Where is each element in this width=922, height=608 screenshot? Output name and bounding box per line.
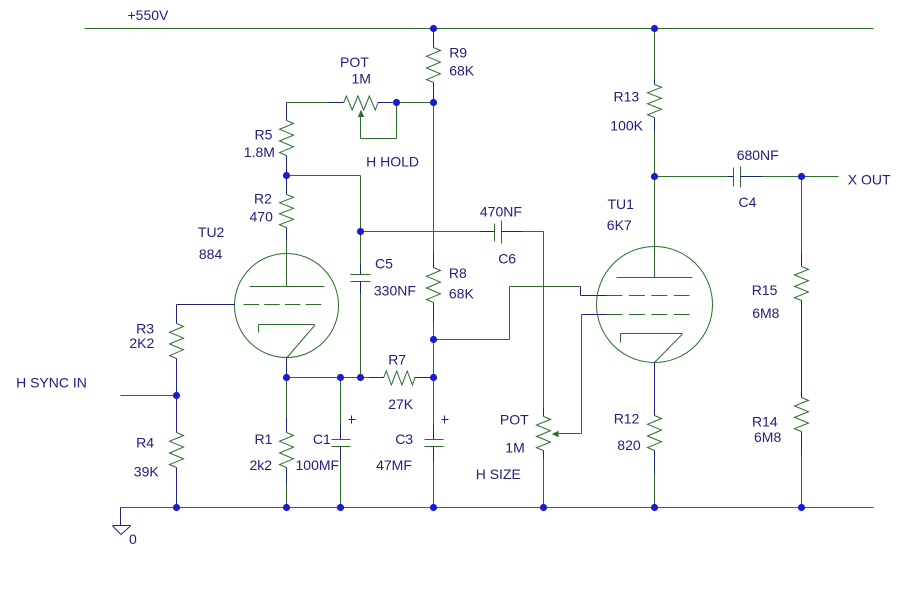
svg-text:680NF: 680NF xyxy=(737,147,779,163)
wire R9 to node xyxy=(433,83,435,103)
label H SYNC IN xyxy=(16,375,87,391)
svg-text:+550V: +550V xyxy=(128,7,170,23)
svg-text:6M8: 6M8 xyxy=(752,305,779,321)
wire POT H SIZE to ground xyxy=(543,451,545,508)
wire node339 to TU1 grid1 xyxy=(434,287,607,340)
wire node101 down to R8 xyxy=(433,103,435,268)
capacitor C4 680NF xyxy=(734,147,779,210)
wire top rail to R13 xyxy=(654,29,656,85)
wire R7 to node433 xyxy=(415,377,434,379)
resistor R2 xyxy=(250,191,294,228)
svg-text:100K: 100K xyxy=(610,118,643,134)
resistor R3 xyxy=(129,321,183,359)
svg-text:TU2: TU2 xyxy=(198,224,225,240)
svg-text:39K: 39K xyxy=(134,464,160,480)
wire C5 to cathode row xyxy=(360,282,362,378)
potentiometer POT 1M H HOLD xyxy=(340,54,378,110)
svg-text:6K7: 6K7 xyxy=(607,217,632,233)
wire node231 to C6 xyxy=(361,231,495,233)
svg-text:68K: 68K xyxy=(449,63,475,79)
capacitor C1 100MF xyxy=(296,416,356,473)
node C1 top xyxy=(337,374,344,381)
svg-text:2K2: 2K2 xyxy=(129,335,154,351)
node C5 top xyxy=(357,228,364,235)
svg-text:R15: R15 xyxy=(752,282,778,298)
svg-text:C6: C6 xyxy=(498,251,516,267)
node ground R14 xyxy=(798,504,805,511)
node R7 right xyxy=(430,374,437,381)
node X OUT xyxy=(798,173,805,180)
node top-rail R13 xyxy=(651,25,658,32)
wire C6 to H SIZE pot column xyxy=(502,232,544,409)
node pot wiper xyxy=(393,99,400,106)
svg-text:1.8M: 1.8M xyxy=(244,144,275,160)
wire C1 to ground xyxy=(340,447,342,508)
svg-text:2k2: 2k2 xyxy=(250,457,273,473)
svg-text:0: 0 xyxy=(129,531,137,547)
svg-text:R2: R2 xyxy=(254,191,272,207)
wire R2 to TU2 anode xyxy=(286,228,288,254)
svg-text:TU1: TU1 xyxy=(608,196,635,212)
node C4 left xyxy=(651,173,658,180)
wire TU1 grid2 stub xyxy=(582,314,607,316)
svg-text:470NF: 470NF xyxy=(480,204,522,220)
wire H SYNC IN stub xyxy=(121,395,177,397)
resistor R12 xyxy=(614,411,662,454)
resistor R8 xyxy=(427,265,475,303)
wire node339 to node377 xyxy=(433,340,435,378)
resistor R9 xyxy=(427,45,475,83)
wire R13 to node176 xyxy=(654,118,656,177)
resistor R7 xyxy=(384,352,416,413)
node ground C1 xyxy=(337,504,344,511)
svg-text:330NF: 330NF xyxy=(374,283,416,299)
node ground R12 xyxy=(651,504,658,511)
svg-text:47MF: 47MF xyxy=(376,457,412,473)
resistor R4 xyxy=(134,433,184,480)
wire node176 to TU1 anode xyxy=(654,177,656,247)
svg-text:C3: C3 xyxy=(395,431,413,447)
svg-text:R8: R8 xyxy=(449,265,467,281)
svg-text:H SYNC IN: H SYNC IN xyxy=(16,375,87,391)
wire R4 to ground xyxy=(176,468,178,508)
wire POT right to node xyxy=(378,102,434,104)
svg-text:R14: R14 xyxy=(752,414,778,430)
svg-text:R9: R9 xyxy=(449,45,467,61)
wire R8 to node339 xyxy=(433,303,435,340)
POT H SIZE wiper arrow xyxy=(552,431,582,438)
svg-text:884: 884 xyxy=(199,246,223,262)
svg-text:100MF: 100MF xyxy=(296,457,340,473)
node ground R4 xyxy=(173,504,180,511)
potentiometer POT 1M H SIZE xyxy=(476,409,551,483)
wire POT left corner down xyxy=(286,103,288,121)
svg-text:R1: R1 xyxy=(255,431,273,447)
svg-text:POT: POT xyxy=(500,412,529,428)
wire cathode row xyxy=(287,377,384,379)
node ground H SIZE pot xyxy=(540,504,547,511)
label X OUT xyxy=(848,172,891,188)
label +550V xyxy=(128,7,170,23)
wire TU1 cathode to R12 xyxy=(654,363,656,416)
wire C3 to ground xyxy=(433,447,435,508)
svg-text:R12: R12 xyxy=(614,411,640,427)
node ground R1 xyxy=(283,504,290,511)
svg-text:H HOLD: H HOLD xyxy=(366,154,419,170)
wire node377 to R1 xyxy=(286,378,288,433)
svg-text:H SIZE: H SIZE xyxy=(476,466,521,482)
wire R5 top to POT xyxy=(287,102,344,104)
capacitor C3 xyxy=(376,416,448,473)
node R5 bottom xyxy=(283,172,290,179)
wire node801 to R15 xyxy=(801,177,803,267)
svg-text:R13: R13 xyxy=(614,89,640,105)
svg-text:R4: R4 xyxy=(136,435,154,451)
node pot right xyxy=(430,99,437,106)
svg-text:820: 820 xyxy=(617,437,641,453)
svg-text:POT: POT xyxy=(340,54,369,70)
node H SYNC IN xyxy=(173,392,180,399)
ground symbol 0 xyxy=(113,508,138,548)
wire R12 to ground xyxy=(654,451,656,508)
svg-text:R7: R7 xyxy=(388,352,406,368)
capacitor C5 330NF xyxy=(351,256,416,299)
svg-text:1M: 1M xyxy=(505,440,524,456)
svg-text:27K: 27K xyxy=(388,396,414,412)
wire R15 to R14 xyxy=(801,301,803,398)
resistor R1 xyxy=(250,431,294,473)
POT wiper arrow xyxy=(358,110,364,139)
node top-rail R9 xyxy=(430,25,437,32)
wire C4 to node801 xyxy=(741,176,802,178)
node TU2 cathode xyxy=(283,374,290,381)
wire R5 to node175 xyxy=(286,156,288,176)
svg-text:C1: C1 xyxy=(313,431,331,447)
wire node395 to R4 xyxy=(176,396,178,433)
power rail +550V xyxy=(85,28,874,30)
label H HOLD xyxy=(366,154,419,170)
wire TU2 grid stub xyxy=(177,304,235,306)
tube TU1 6K7 xyxy=(597,196,713,363)
wire node801 to X OUT xyxy=(802,176,839,178)
svg-text:6M8: 6M8 xyxy=(754,429,781,445)
svg-text:X OUT: X OUT xyxy=(848,172,891,188)
wire node377 to C3 xyxy=(433,378,435,440)
svg-text:470: 470 xyxy=(250,209,274,225)
wire R3 to node395 xyxy=(176,359,178,396)
wire node231 to C5 xyxy=(360,232,362,275)
wire R3 top to TU2 grid xyxy=(176,305,178,324)
svg-text:C5: C5 xyxy=(375,256,393,272)
svg-text:R5: R5 xyxy=(255,127,273,143)
wire node377 to C1 xyxy=(340,378,342,440)
ground rail xyxy=(121,507,874,509)
capacitor C6 470NF xyxy=(480,204,522,267)
svg-text:68K: 68K xyxy=(449,285,475,301)
resistor R15 xyxy=(752,267,809,322)
wire R14 to ground xyxy=(801,432,803,508)
svg-text:C4: C4 xyxy=(739,194,757,210)
node R8 bottom xyxy=(430,336,437,343)
wire node175 right and down to C5 xyxy=(287,176,361,232)
resistor R13 xyxy=(610,85,661,134)
node C5 bottom xyxy=(357,374,364,381)
wire node175 to R2 xyxy=(286,176,288,195)
tube TU2 884 xyxy=(198,224,339,358)
wire POT wiper loop xyxy=(361,103,397,139)
node ground C3 xyxy=(430,504,437,511)
resistor R14 xyxy=(752,398,809,446)
wire node176 to C4 xyxy=(655,176,734,178)
wire TU2 cathode to node xyxy=(286,358,288,378)
resistor R5 xyxy=(244,121,294,161)
wire grid2 down to H SIZE wiper xyxy=(581,315,583,434)
wire R1 to ground xyxy=(286,468,288,508)
svg-text:1M: 1M xyxy=(352,71,371,87)
wire top rail to R9 xyxy=(433,29,435,48)
